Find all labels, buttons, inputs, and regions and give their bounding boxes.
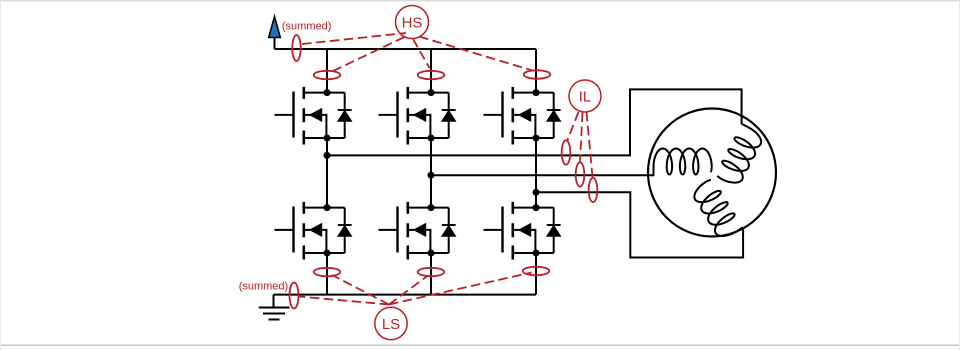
wire: drain stub phase B high-side <box>430 49 432 93</box>
annotation: LS measurement ellipse phase B <box>418 268 445 276</box>
annotation: LS measurement ellipse phase A <box>314 268 341 276</box>
transistor Q5 low-side phase B <box>379 202 456 260</box>
svg-text:(summed): (summed) <box>282 21 332 33</box>
motor winding L2 (top-right coil, phase A) <box>715 124 765 188</box>
transistor Q4 low-side phase A <box>275 202 352 260</box>
annotation: summed-current ellipse on ground wire <box>290 283 299 309</box>
annotation: HS measurement ellipse phase C <box>524 70 551 78</box>
junction: phase B node <box>428 172 435 179</box>
annotation: LS dashed leader lines <box>299 273 532 305</box>
wire: phase B output to motor (middle path) <box>431 174 654 176</box>
annotation: IL measurement ellipse phase C <box>589 178 598 202</box>
svg-text:LS: LS <box>382 316 400 333</box>
bottom rail wire (DC bus -) <box>274 294 537 296</box>
wire: drain stub phase C high-side <box>535 49 537 93</box>
annotation: IL measurement ellipse phase B <box>576 162 585 186</box>
svg-text:HS: HS <box>402 14 423 31</box>
ground symbol <box>259 295 290 320</box>
annotation: HS measurement ellipse phase A <box>314 71 341 79</box>
annotation: HS label circle <box>396 6 429 39</box>
VCC arrow (supply) <box>269 17 281 38</box>
transistor Q2 high-side phase B <box>379 87 456 145</box>
wire: phase A output to motor (top path) <box>327 89 742 155</box>
annotation: IL dashed leader lines <box>568 112 593 177</box>
junction: phase C node <box>533 189 540 196</box>
annotation: LS measurement ellipse phase C <box>523 267 550 275</box>
left edge rule <box>0 0 1 350</box>
wire: source stub phase C low-side <box>535 253 537 295</box>
motor M1 body circle <box>648 109 776 237</box>
supply stub wire <box>274 37 276 49</box>
top border rule <box>0 0 960 2</box>
bottom border rule <box>0 345 960 347</box>
annotation: HS dashed leader lines <box>302 33 533 71</box>
svg-text:IL: IL <box>579 88 592 105</box>
annotation: HS measurement ellipse phase B <box>418 71 445 79</box>
annotation: IL label circle <box>569 80 601 112</box>
wire: source stub phase B low-side <box>430 253 432 295</box>
wire: phase C output to motor (bottom path) <box>536 192 743 257</box>
transistor Q6 low-side phase C <box>484 202 561 260</box>
wire: drain stub phase A high-side <box>326 49 328 93</box>
motor winding L1 (left coil, phase B) <box>654 149 712 175</box>
annotation: IL measurement ellipse phase A <box>562 140 571 164</box>
wire: source stub phase A low-side <box>326 253 328 295</box>
annotation: summed-current ellipse on supply wire <box>292 35 300 61</box>
right edge rule <box>959 0 960 350</box>
wire: phase A midpoint vertical <box>326 138 328 208</box>
wire: phase B midpoint vertical <box>430 138 432 208</box>
transistor Q3 high-side phase C <box>484 87 561 145</box>
svg-text:(summed): (summed) <box>239 280 289 292</box>
top rail wire (DC bus +) <box>275 48 537 50</box>
transistor Q1 high-side phase A <box>275 87 352 145</box>
motor winding L3 (bottom coil, phase C) <box>690 178 743 241</box>
annotation: LS label circle <box>375 307 407 339</box>
junction: phase A node <box>324 152 331 159</box>
wire: phase C midpoint vertical <box>535 138 537 208</box>
